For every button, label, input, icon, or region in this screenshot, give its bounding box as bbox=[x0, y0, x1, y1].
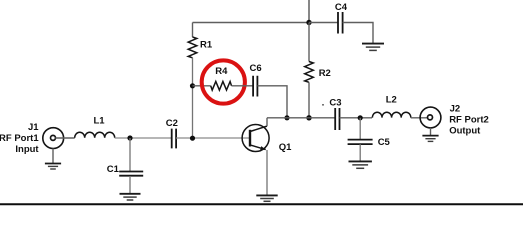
red highlight circle around R4 bbox=[202, 60, 245, 103]
node at top rail / R2 branch bbox=[306, 20, 311, 25]
ground J2 bbox=[422, 136, 438, 142]
node R4 tap on R1 line bbox=[190, 83, 195, 88]
wire supply stub above node bbox=[308, 0, 310, 23]
inductor L2 bbox=[372, 112, 410, 117]
node L1 / C1 junction bbox=[127, 135, 132, 140]
label J2 / RF Port2 / Output bbox=[449, 104, 489, 137]
capacitor C5 bbox=[348, 140, 373, 145]
wire Q1 emitter down bbox=[266, 150, 268, 195]
wire C4 to ground bbox=[343, 23, 373, 44]
wire J1 to L1 bbox=[55, 137, 74, 139]
svg-text:Output: Output bbox=[449, 126, 481, 137]
svg-text:C5: C5 bbox=[378, 137, 391, 148]
svg-text:L2: L2 bbox=[386, 95, 397, 106]
capacitor C6 bbox=[253, 76, 257, 97]
svg-text:R1: R1 bbox=[200, 39, 213, 50]
ground C4 bbox=[362, 44, 384, 51]
svg-text:R4: R4 bbox=[215, 66, 228, 77]
wire J2 ground stem bbox=[430, 128, 432, 135]
wire C1 lower lead bbox=[129, 176, 131, 193]
inductor L1 bbox=[75, 132, 115, 138]
port J1 bbox=[43, 128, 64, 149]
wire C5 upper lead bbox=[359, 118, 361, 140]
wire R1 lower lead down to base node bbox=[192, 58, 194, 138]
label J1 / RF Port1 / Input bbox=[0, 122, 39, 155]
svg-text:L1: L1 bbox=[94, 115, 106, 126]
node C6 drop on collector rail bbox=[284, 115, 289, 120]
node C2 / R1 junction bbox=[190, 136, 195, 141]
wire R4 left lead bbox=[193, 85, 211, 87]
svg-text:R2: R2 bbox=[319, 68, 331, 79]
svg-text:RF Port1: RF Port1 bbox=[0, 133, 39, 144]
wire C6 to corner and drop to collector rail bbox=[257, 86, 287, 118]
capacitor C4 bbox=[338, 12, 343, 34]
ground C5 bbox=[349, 161, 372, 168]
stray dot mark bbox=[322, 104, 324, 106]
ground C1 bbox=[120, 194, 141, 200]
node R2 on collector rail bbox=[306, 115, 311, 120]
svg-text:J2: J2 bbox=[450, 104, 461, 115]
svg-text:C4: C4 bbox=[335, 2, 348, 13]
svg-text:C2: C2 bbox=[166, 118, 178, 129]
transistor Q1 bbox=[242, 125, 269, 152]
wire R1 upper lead bbox=[192, 23, 194, 38]
svg-text:C3: C3 bbox=[329, 98, 341, 109]
wire collector rail to C3 bbox=[267, 117, 335, 119]
wire L1 to C2 bbox=[115, 137, 172, 139]
ground Q1 bbox=[256, 195, 277, 201]
wire C1 upper lead bbox=[129, 138, 131, 171]
wire top rail to C4 bbox=[309, 22, 338, 24]
wire L2 to J2 bbox=[411, 117, 428, 119]
svg-text:J1: J1 bbox=[28, 122, 39, 133]
wire C5 lower lead bbox=[359, 144, 361, 161]
resistor R2 bbox=[305, 62, 314, 83]
wire Q1 collector pin up to rail bbox=[266, 118, 268, 126]
svg-text:C1: C1 bbox=[107, 164, 120, 175]
wire J1 ground stem bbox=[52, 149, 54, 164]
wire R2 upper lead bbox=[308, 23, 310, 62]
resistor R4 bbox=[211, 82, 232, 91]
capacitor C2 bbox=[172, 129, 176, 149]
svg-text:C6: C6 bbox=[250, 63, 262, 74]
port J2 bbox=[420, 107, 441, 128]
wire R4 to C6 bbox=[232, 85, 253, 87]
capacitor C3 bbox=[335, 108, 339, 130]
wire top rail from R1 to R2 node bbox=[193, 22, 310, 24]
ground J1 bbox=[45, 164, 61, 170]
node C3 / C5 / L2 junction bbox=[358, 115, 363, 120]
svg-text:Q1: Q1 bbox=[279, 142, 292, 153]
bottom border line bbox=[0, 203, 523, 205]
resistor R1 bbox=[188, 37, 197, 58]
wire C3 to C5 node bbox=[340, 117, 373, 119]
svg-text:Input: Input bbox=[15, 144, 39, 155]
capacitor C1 bbox=[119, 172, 143, 176]
svg-text:RF Port2: RF Port2 bbox=[449, 115, 489, 126]
wire C2 to Q1 base bbox=[176, 137, 250, 139]
wire R2 lower lead bbox=[308, 82, 310, 118]
